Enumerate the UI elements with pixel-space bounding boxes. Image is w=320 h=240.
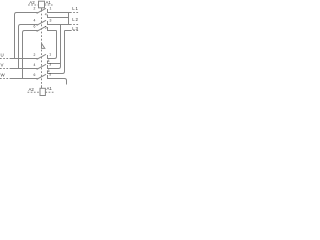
coil K1 (top) (39, 1, 45, 8)
wire A1 lead (bottom, dashed) (45, 91, 53, 93)
svg-text:6: 6 (34, 73, 36, 77)
svg-text:L2: L2 (72, 17, 78, 22)
wire A2 lead (bottom, dashed) (28, 91, 41, 93)
node row2 pivot (36, 24, 38, 26)
svg-text:3: 3 (50, 19, 52, 23)
wire row3 NC terminal (48, 27, 57, 31)
wire right vertical x60 (60, 25, 62, 67)
wire row4 NC terminal (48, 55, 57, 59)
svg-text:1: 1 (50, 7, 52, 11)
coil K2 (bottom) (40, 88, 45, 95)
wire A2 lead (top, dashed) (28, 4, 39, 6)
svg-text:4: 4 (34, 19, 36, 23)
wire V lead dashed (0, 68, 11, 70)
node row1 pivot (36, 12, 38, 14)
wire L3 feed (65, 30, 71, 32)
switch contact row2 lever (37, 20, 46, 25)
wire row4 common from U (11, 58, 37, 60)
mechanical link (dashed vertical) (41, 8, 43, 10)
wire W lead dashed (0, 78, 11, 80)
svg-text:5: 5 (45, 26, 47, 30)
node row3 pivot (36, 30, 38, 32)
wire row1 NO terminal (48, 15, 69, 18)
latch symbol (triangle on link) (42, 43, 45, 48)
wire A1 lead (top, dashed) (45, 4, 54, 6)
svg-text:L3: L3 (72, 26, 78, 31)
svg-text:4: 4 (34, 63, 36, 67)
wire left bus 1 + row1 common (15, 13, 38, 59)
svg-text:4: 4 (45, 13, 47, 17)
wire row5 NO terminal (48, 71, 65, 74)
wire link stub bottom (41, 85, 43, 88)
svg-text:A2: A2 (29, 0, 35, 5)
wire U lead dashed (0, 58, 11, 60)
svg-text:V: V (1, 62, 4, 67)
node row5 pivot (36, 68, 38, 70)
switch contact row1 lever (37, 8, 46, 13)
svg-text:3: 3 (49, 63, 51, 67)
wire left bus 3 + row3 common (23, 31, 38, 79)
wire right vertical x56 (56, 31, 58, 57)
svg-text:W: W (1, 73, 6, 78)
switch contact row6 lever (37, 74, 46, 79)
switch contact row4 lever (37, 54, 46, 59)
svg-text:A2: A2 (29, 87, 35, 92)
wire row1 NC terminal (48, 9, 71, 13)
switch contact row5 lever (37, 64, 46, 69)
wire left bus 2 + row2 common (19, 25, 38, 69)
wire row2 NC dashed to L2 (70, 24, 80, 26)
svg-text:A1: A1 (47, 86, 53, 91)
wire row2 NC terminal (48, 21, 71, 25)
wire row5 NC terminal (48, 65, 61, 69)
wire L3 dashed (70, 30, 80, 32)
switch contact row3 lever (37, 26, 46, 31)
svg-text:2: 2 (34, 53, 36, 57)
wire right vertical x64 (64, 31, 66, 72)
svg-text:5: 5 (49, 73, 51, 77)
wire right vertical x68 (68, 13, 70, 25)
wire row1 NC dashed to L1 (70, 12, 80, 14)
svg-text:1: 1 (49, 53, 51, 57)
svg-text:L1: L1 (72, 6, 78, 11)
svg-text:6: 6 (34, 25, 36, 29)
svg-text:U: U (1, 52, 4, 57)
wire row6 NC terminal (48, 75, 67, 85)
wire row5 common from V (11, 68, 37, 70)
node row4 pivot (36, 58, 38, 60)
svg-text:A1: A1 (46, 0, 52, 5)
wire row6 common from W (11, 78, 37, 80)
svg-text:2: 2 (34, 7, 36, 11)
node row6 pivot (36, 78, 38, 80)
wire row4 NO terminal (48, 61, 61, 64)
